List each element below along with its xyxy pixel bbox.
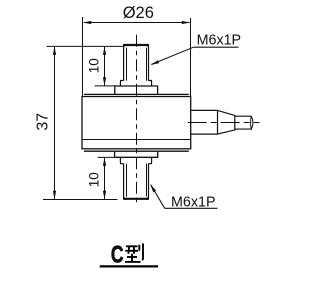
dim 10 top arrows xyxy=(103,46,106,55)
cable xyxy=(235,116,252,129)
dim Ø26 arrow right xyxy=(182,21,191,24)
body seam line xyxy=(82,139,191,141)
dim 10 bottom arrows xyxy=(103,157,106,166)
top stud chamfer corners xyxy=(123,44,127,48)
top neck xyxy=(120,81,151,86)
dim 37 arrow bottom xyxy=(53,191,56,200)
bottom flange xyxy=(115,151,158,157)
label M6x1P bottom underline xyxy=(165,207,218,209)
flange-top extension line xyxy=(95,85,115,87)
dim 37 arrow top xyxy=(53,46,56,55)
cable end xyxy=(251,116,253,129)
label M6x1P bottom leader arrowhead xyxy=(150,184,156,193)
body bottom cap line xyxy=(84,150,189,152)
vertical centerline xyxy=(136,35,138,205)
label M6x1P bottom leader xyxy=(151,185,165,208)
svg-text:M6x1P: M6x1P xyxy=(197,32,242,48)
dim 10 top line xyxy=(104,47,106,86)
dim 10 bottom line xyxy=(104,158,106,200)
svg-text:37: 37 xyxy=(35,113,52,131)
horizontal centerline xyxy=(188,122,260,124)
label M6x1P top leader xyxy=(152,47,194,64)
svg-text:10: 10 xyxy=(87,172,102,187)
cable strain relief taper xyxy=(218,110,235,134)
top extension line (stud top level) xyxy=(47,45,124,47)
body outline xyxy=(82,97,191,149)
label M6x1P top leader arrowhead xyxy=(150,60,159,65)
svg-text:10: 10 xyxy=(87,58,102,73)
dim Ø26 extension line left xyxy=(82,17,84,97)
cable connector barrel xyxy=(191,110,218,134)
title 型 glyph drawn xyxy=(125,243,143,262)
top stud M6 xyxy=(124,45,149,81)
flange-bottom extension line xyxy=(98,156,115,158)
bottom extension line (stud bottom level) xyxy=(43,199,118,201)
bottom stud chamfer corners xyxy=(123,196,127,200)
dim Ø26 extension line right xyxy=(190,18,192,97)
top flange xyxy=(115,86,158,94)
title underline xyxy=(100,265,158,267)
dim 37 line xyxy=(54,47,56,199)
body top cap line xyxy=(84,93,189,95)
svg-text:C: C xyxy=(111,242,124,268)
bottom stud M6 xyxy=(124,164,149,199)
bottom neck xyxy=(120,157,151,163)
dim Ø26 arrow left xyxy=(83,21,92,24)
label M6x1P top underline xyxy=(194,46,239,48)
svg-text:Ø26: Ø26 xyxy=(123,4,154,22)
dim Ø26 line xyxy=(84,22,190,24)
